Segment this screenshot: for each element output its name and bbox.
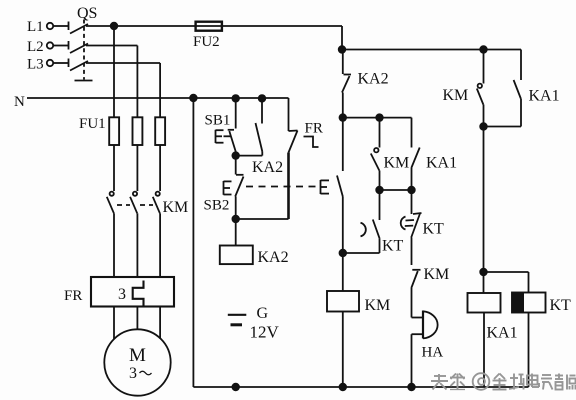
svg-text:KT: KT bbox=[423, 221, 445, 238]
svg-text:SB2: SB2 bbox=[204, 198, 230, 214]
junction KM/KA1 merge right bbox=[408, 187, 415, 194]
wire FU1 outputs to KM contacts bbox=[114, 145, 160, 191]
terminal L2 bbox=[27, 39, 53, 55]
contact KA1 (NO, right column) bbox=[514, 50, 560, 127]
junction top control node bbox=[339, 46, 346, 53]
pushbutton SB1 (NC) bbox=[205, 98, 237, 155]
svg-text:QS: QS bbox=[77, 5, 97, 22]
svg-text:3: 3 bbox=[129, 365, 137, 382]
fuse FU2 bbox=[193, 22, 222, 50]
wire L1 phase to top bus bbox=[86, 25, 342, 27]
svg-text:KA2: KA2 bbox=[258, 249, 289, 266]
wire KM contacts to FR box bbox=[114, 213, 160, 277]
junction N / SB1 bbox=[232, 95, 239, 102]
wire bottom rail bbox=[193, 386, 528, 388]
wire top bus corner down bbox=[341, 26, 343, 50]
svg-text:L2: L2 bbox=[27, 39, 44, 55]
svg-text:M: M bbox=[129, 345, 146, 366]
wire L2 phase bbox=[86, 46, 137, 118]
wire FR branch to SB2 bottom bbox=[236, 218, 289, 220]
svg-text:FR: FR bbox=[305, 121, 323, 137]
svg-text:KA2: KA2 bbox=[358, 71, 389, 88]
junction rail / HA bbox=[408, 384, 415, 391]
relay contact KA2 (NO, top) bbox=[342, 50, 389, 118]
wire L3 terminal to switch bbox=[53, 62, 68, 64]
svg-text:G: G bbox=[257, 305, 269, 322]
thermal contact FR (NC) bbox=[289, 98, 323, 153]
svg-text:HA: HA bbox=[422, 345, 444, 361]
junction KM coil node bbox=[340, 250, 347, 257]
junction KA2 bottom bbox=[340, 114, 347, 121]
junction N / KA2 contact bbox=[259, 95, 266, 102]
svg-text:FR: FR bbox=[64, 288, 82, 304]
junction SB1/KA2 bottom bbox=[232, 152, 239, 159]
wire L3 phase bbox=[86, 63, 160, 117]
junction KM/KA1 merge left bbox=[376, 187, 383, 194]
svg-text:KA1: KA1 bbox=[529, 88, 560, 105]
svg-text:KT: KT bbox=[382, 238, 404, 255]
contactor KM main contacts bbox=[107, 192, 188, 216]
contact KA1 aux (NO) bbox=[411, 118, 457, 190]
junction rail / KA2 bbox=[232, 384, 239, 391]
wire KA2 node bus bbox=[343, 117, 412, 119]
svg-text:KM: KM bbox=[424, 266, 450, 283]
wire right column down bbox=[483, 127, 485, 273]
svg-text:KM: KM bbox=[163, 199, 189, 216]
wire KA2 contact bottom to SB1 bottom bbox=[236, 155, 263, 157]
svg-text:KT: KT bbox=[550, 297, 572, 314]
wire L1 down to FU1 bbox=[113, 26, 115, 117]
pushbutton SB2 (NO) bbox=[204, 156, 244, 219]
wire FR box to motor bbox=[114, 307, 160, 340]
wire L2 terminal to switch bbox=[53, 45, 68, 47]
watermark 头条@全球电气资源 bbox=[431, 373, 576, 390]
wire N bus bbox=[27, 97, 289, 99]
relay coil KA1 bbox=[468, 272, 518, 387]
horn HA bbox=[412, 311, 444, 388]
svg-text:L3: L3 bbox=[27, 57, 44, 73]
svg-text:KM: KM bbox=[365, 297, 391, 314]
timer contact KT (NC delayed, right) bbox=[401, 190, 444, 265]
thermal overload relay FR box bbox=[64, 277, 174, 307]
wire FR contact down (heavy) bbox=[287, 153, 290, 220]
svg-text:KA1: KA1 bbox=[487, 325, 518, 342]
junction rail / KM coil bbox=[340, 384, 347, 391]
wire KT contact to KM coil node bbox=[343, 252, 380, 254]
svg-text:L1: L1 bbox=[27, 19, 44, 35]
contact KM (NO, right column) bbox=[443, 50, 484, 127]
battery G 12V bbox=[228, 305, 280, 342]
svg-text:12V: 12V bbox=[250, 323, 280, 342]
junction KM aux top bbox=[376, 114, 383, 121]
svg-text:N: N bbox=[14, 94, 25, 110]
wire right merge bbox=[484, 126, 522, 128]
wire left control rail bbox=[192, 98, 194, 387]
junction KM/KA1 right merge bbox=[480, 123, 487, 130]
junction top bus / KM right bbox=[480, 46, 487, 53]
coil KA2 bbox=[220, 219, 289, 266]
disconnect switch QS bbox=[69, 5, 98, 81]
fuse group FU1 bbox=[79, 116, 165, 145]
svg-text:KM: KM bbox=[384, 155, 410, 172]
junction N / left rail bbox=[190, 95, 197, 102]
wire merge bbox=[380, 189, 412, 191]
contact KM aux (NO self-hold) bbox=[371, 118, 409, 190]
motor M 3~ bbox=[104, 329, 170, 395]
timer contact KT (delayed, left) bbox=[361, 190, 404, 255]
svg-text:FU2: FU2 bbox=[193, 34, 220, 50]
svg-text:3: 3 bbox=[118, 286, 126, 303]
svg-text:KA1: KA1 bbox=[426, 155, 457, 172]
wire L1 terminal to switch bbox=[53, 25, 68, 27]
contact KM aux (NO, alarm branch) bbox=[411, 266, 449, 318]
svg-text:SB1: SB1 bbox=[205, 113, 231, 129]
svg-text:KM: KM bbox=[443, 87, 469, 104]
terminal L3 bbox=[27, 57, 53, 73]
svg-text:FU1: FU1 bbox=[79, 116, 106, 132]
svg-text:KA2: KA2 bbox=[252, 159, 283, 176]
wire control top bus bbox=[342, 49, 521, 51]
relay contact KA2 (NO, parallel with SB1) bbox=[252, 98, 283, 176]
timer coil KT bbox=[484, 272, 572, 387]
contactor coil KM bbox=[327, 253, 390, 387]
node junction L1/FU1 bbox=[111, 23, 118, 30]
pushbutton SB2 twin contact (NO) bbox=[321, 118, 343, 253]
junction KA1/KT coils bbox=[480, 269, 487, 276]
junction SB2 bottom bbox=[232, 216, 239, 223]
terminal L1 bbox=[27, 19, 53, 35]
mechanical link dashed SB2 to twin contact bbox=[246, 186, 320, 188]
